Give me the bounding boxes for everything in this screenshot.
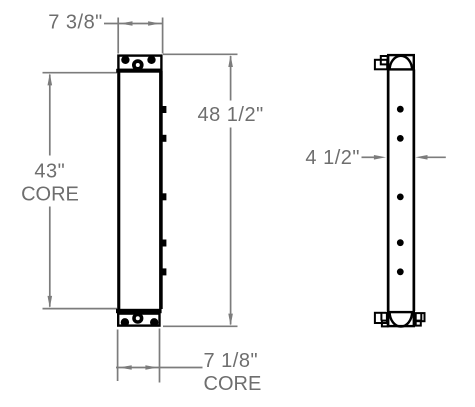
- front view: core right edge: [159, 71, 163, 309]
- dimension 43 core: down arrowhead: [48, 296, 53, 308]
- side view: bottom bracket left lower tab: [382, 321, 388, 327]
- dimension 48 1/2: dimension line upper segment: [230, 56, 232, 101]
- side view: bottom bracket right upper tab: [416, 313, 425, 321]
- front view: bottom tank left bolt: [121, 318, 129, 326]
- side view: bottom bracket right divider: [420, 313, 422, 321]
- front view: core left edge: [117, 71, 120, 309]
- front view: core to bottom tank joint bar: [116, 309, 162, 313]
- side view: body left edge: [387, 70, 390, 312]
- dimension 7 1/8 core bottom: left extension line: [117, 330, 119, 382]
- dimension 48 1/2: up arrowhead: [228, 55, 233, 67]
- dimension 48 1/2: dimension line lower segment: [230, 128, 232, 325]
- side view: bolt hole dot 1: [397, 106, 404, 113]
- dimension 43 core: top extension line: [43, 72, 118, 74]
- front view: top tank to core joint bar: [116, 69, 162, 73]
- dimension 48 1/2: bottom extension line: [163, 325, 238, 327]
- side view: bolt hole dot 4: [397, 239, 404, 246]
- side view: bottom bracket right lower tab: [416, 321, 421, 326]
- front view: top tank right bolt: [147, 56, 155, 64]
- side view: body right edge: [413, 70, 416, 312]
- dimension 4 1/2 side: left tail line: [362, 156, 376, 158]
- front view: top tank filler ring: [134, 61, 142, 69]
- side view: top cap box: [388, 55, 414, 69]
- front view: top tank left bolt: [121, 56, 129, 64]
- side view: bottom bracket left divider: [380, 313, 382, 321]
- side view: top cap dome: [390, 56, 413, 70]
- dimension 4 1/2 side: right arrowhead pointing left: [415, 155, 427, 160]
- dimension 43 core: bottom extension line: [43, 308, 118, 310]
- side view: bolt hole dot 3: [397, 194, 404, 201]
- dimension 4 1/2 side: right tail line: [427, 156, 446, 158]
- side view: top bracket upper tab: [381, 56, 388, 64]
- dimension 7 1/8 core bottom: dimension line: [116, 367, 203, 369]
- dimension 4 1/2 side: left arrowhead pointing right: [374, 155, 386, 160]
- side view: bottom bracket left upper tab: [375, 313, 387, 323]
- dimension 43 core: dimension line upper segment: [49, 75, 51, 156]
- svg-text:43": 43": [34, 160, 65, 182]
- dimension 7 3/8 top: right extension line: [162, 18, 164, 54]
- dimension 43 core: dimension line lower segment: [49, 207, 51, 307]
- front view: mounting tab 1: [162, 106, 167, 113]
- side view: bottom cap dome: [390, 312, 413, 327]
- side view: top bracket lower tab: [375, 60, 387, 70]
- side view: bolt hole dot 5: [397, 268, 404, 275]
- dimension 48 1/2: down arrowhead: [228, 314, 233, 326]
- dimension 7 1/8 core bottom: right arrowhead: [145, 365, 157, 370]
- dimension 43 core: up arrowhead: [48, 73, 53, 85]
- svg-text:7 1/8": 7 1/8": [204, 350, 259, 372]
- front view: top tank box: [118, 56, 161, 70]
- front view: mounting tab 3: [162, 193, 167, 200]
- dimension 7 3/8 top: left arrowhead: [120, 21, 132, 26]
- dimension 7 3/8 top: right arrowhead: [148, 21, 160, 26]
- front view: bottom tank right bolt: [150, 318, 158, 326]
- dimension 7 1/8 core bottom: left arrowhead: [120, 365, 132, 370]
- front view: bottom tank drain ring: [134, 314, 142, 322]
- front view: mounting tab 5: [162, 268, 167, 275]
- dimension 7 1/8 core bottom: right extension line: [159, 329, 161, 383]
- svg-text:4 1/2": 4 1/2": [305, 147, 360, 169]
- side view: bolt hole dot 2: [397, 135, 404, 142]
- svg-text:CORE: CORE: [204, 373, 262, 395]
- svg-text:48 1/2": 48 1/2": [197, 104, 263, 126]
- dimension 7 3/8 top: dimension line: [104, 23, 163, 25]
- side view: bottom cap box: [388, 312, 414, 326]
- svg-text:7 3/8": 7 3/8": [48, 12, 103, 34]
- dimension 7 3/8 top: left extension line: [117, 18, 119, 54]
- front view: mounting tab 2: [162, 135, 167, 142]
- svg-text:CORE: CORE: [21, 184, 79, 206]
- front view: bottom tank box: [118, 314, 159, 326]
- dimension 48 1/2: top extension line: [163, 53, 238, 55]
- front view: mounting tab 4: [162, 240, 167, 247]
